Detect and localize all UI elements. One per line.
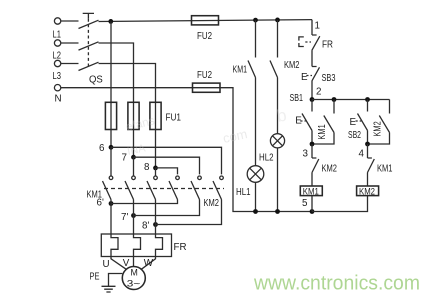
- fuse FU1: [105, 102, 181, 129]
- node 4: [359, 142, 370, 160]
- wire coil KM2 to rail: [312, 196, 368, 212]
- svg-text:5: 5: [302, 198, 308, 209]
- fuse FU2 (top): [192, 16, 219, 42]
- svg-text:U: U: [103, 259, 110, 270]
- node 2: [310, 87, 322, 102]
- svg-text:KM2: KM2: [359, 186, 375, 196]
- contactor KM2 main contacts: [169, 176, 223, 209]
- svg-text:1: 1: [315, 21, 320, 32]
- svg-text:QS: QS: [89, 75, 103, 86]
- svg-text:FU2: FU2: [197, 70, 212, 81]
- contact KM1 lamp branch: [233, 20, 256, 166]
- node rail a: [253, 209, 258, 214]
- node rail b: [275, 209, 280, 214]
- wire coil KM1 to rail: [311, 196, 313, 212]
- button SB3 NC: [301, 67, 336, 100]
- node L1 junction: [108, 19, 113, 24]
- lamp HL1: [236, 166, 264, 212]
- svg-text:SB2: SB2: [348, 130, 361, 141]
- node 5: [302, 198, 314, 214]
- switch QS: [61, 13, 103, 85]
- node 8: [144, 162, 158, 173]
- svg-text:E: E: [350, 117, 357, 128]
- svg-text:FU2: FU2: [197, 31, 212, 42]
- svg-text:KM2: KM2: [204, 198, 220, 209]
- terminal L3: [53, 60, 62, 82]
- svg-text:L3: L3: [53, 71, 62, 82]
- terminal L1: [53, 18, 62, 41]
- wire N rail to control bottom: [220, 88, 312, 212]
- svg-text:FU1: FU1: [166, 113, 182, 124]
- wire node2 bus: [312, 99, 390, 101]
- ground PE: [90, 272, 123, 293]
- node 7: [122, 153, 136, 164]
- lamp HL2: [259, 134, 285, 212]
- wire pole6 to 8': [156, 200, 222, 225]
- button SB1 NO: [290, 93, 313, 144]
- svg-text:FR: FR: [322, 40, 333, 51]
- contact KM2 NC interlock: [312, 144, 337, 186]
- svg-text:b: b: [275, 106, 288, 126]
- wire L3 to drop: [99, 64, 156, 168]
- svg-text:6': 6': [97, 198, 104, 209]
- coil KM1: [300, 186, 322, 196]
- svg-text:7': 7': [121, 212, 128, 223]
- svg-text:KM2: KM2: [322, 164, 338, 175]
- faint watermark smudges: [124, 106, 288, 158]
- svg-text:4: 4: [359, 149, 365, 160]
- button SB2 NO: [348, 100, 368, 145]
- node top KM2 branch: [275, 18, 280, 23]
- wire pole1..3 down: [111, 200, 156, 235]
- contact KM1 aux NO: [312, 100, 334, 145]
- svg-text:KM1: KM1: [303, 186, 319, 196]
- svg-text:FR: FR: [174, 242, 187, 253]
- svg-text:HL1: HL1: [236, 187, 251, 198]
- svg-text:KM1: KM1: [233, 65, 248, 76]
- node 7': [121, 212, 136, 223]
- svg-text:E: E: [301, 72, 308, 83]
- contact FR NC: [299, 20, 333, 67]
- terminal L2: [53, 40, 62, 62]
- svg-text:KM2: KM2: [284, 60, 300, 71]
- terminal N: [54, 85, 61, 105]
- node 3: [303, 142, 315, 160]
- contactor KM1 main contacts: [87, 147, 158, 200]
- svg-text:KM1: KM1: [377, 164, 393, 175]
- svg-text:2: 2: [316, 87, 321, 98]
- svg-text:INA: INA: [126, 142, 147, 158]
- fuse FU2 (neutral): [193, 70, 221, 92]
- wire L2 to drop: [99, 43, 134, 157]
- svg-text:W: W: [144, 258, 154, 269]
- svg-text:3~: 3~: [127, 279, 141, 289]
- node 1: [315, 21, 320, 32]
- wire L1 bus top: [99, 20, 313, 22]
- svg-text:V: V: [123, 258, 130, 269]
- wire node6 to KM2 pole6: [111, 147, 222, 174]
- motor M: [103, 257, 156, 290]
- contact KM2 aux NO: [368, 100, 390, 145]
- coil KM2: [357, 186, 379, 196]
- svg-text:8': 8': [142, 221, 149, 232]
- contact KM2 lamp branch: [270, 20, 300, 134]
- node 6': [97, 198, 114, 209]
- svg-text:3: 3: [303, 149, 309, 160]
- wire N to FU2: [61, 87, 220, 89]
- wire node7 to KM2 pole5: [134, 157, 200, 174]
- node 2c: [365, 97, 370, 102]
- svg-text:PE: PE: [90, 272, 100, 283]
- thermal relay FR heaters: [101, 234, 186, 257]
- linkage dashed: [104, 188, 224, 190]
- wire pole4 to 6': [111, 200, 178, 204]
- node top KM1 branch: [253, 18, 258, 23]
- svg-text:8: 8: [144, 162, 150, 173]
- node 6: [99, 143, 113, 154]
- svg-text:6: 6: [99, 143, 105, 154]
- node 2b: [332, 97, 337, 102]
- svg-text:N: N: [55, 94, 62, 105]
- watermark green cntronics: [253, 273, 420, 295]
- svg-text:KM1: KM1: [317, 124, 328, 139]
- wire node8 to KM2 pole4: [156, 168, 178, 175]
- contact KM1 NC interlock: [368, 144, 393, 186]
- svg-text:efans: efans: [124, 113, 156, 134]
- node 8': [142, 221, 158, 232]
- svg-text:www.cntronics.com: www.cntronics.com: [253, 273, 420, 295]
- wire pole5 to 7': [134, 200, 200, 216]
- svg-text:SB1: SB1: [290, 93, 304, 104]
- svg-text:HL2: HL2: [259, 153, 274, 164]
- wire phase drop x=111: [110, 21, 112, 147]
- svg-text:L1: L1: [53, 30, 62, 41]
- svg-text:com: com: [222, 126, 249, 146]
- svg-text:M: M: [131, 268, 138, 278]
- svg-text:SB3: SB3: [322, 73, 336, 84]
- svg-text:KM2: KM2: [373, 121, 384, 136]
- svg-text:7: 7: [122, 153, 127, 164]
